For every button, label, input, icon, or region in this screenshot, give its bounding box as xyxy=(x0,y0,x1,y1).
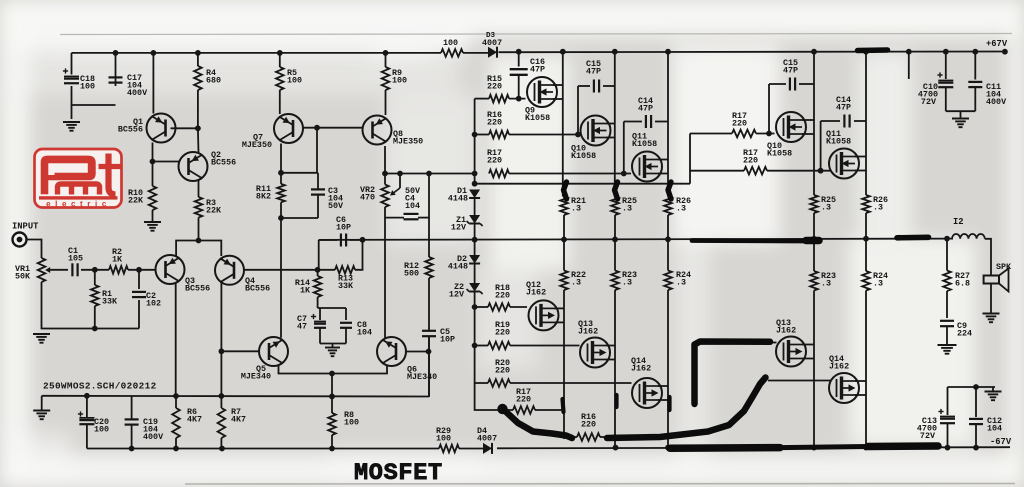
svg-text:400V: 400V xyxy=(143,432,164,442)
svg-text:BC556: BC556 xyxy=(245,283,270,293)
svg-text:.3: .3 xyxy=(622,203,632,213)
ground (C7/C8) xyxy=(332,344,334,348)
svg-text:4K7: 4K7 xyxy=(231,414,246,424)
capacitor C13 4700/72V xyxy=(947,387,949,415)
svg-text:MJE350: MJE350 xyxy=(242,140,272,150)
resistor R1 33K xyxy=(94,270,96,285)
svg-text:MJE340: MJE340 xyxy=(241,372,271,382)
svg-text:K1058: K1058 xyxy=(571,151,596,161)
node Q2 base tap xyxy=(150,159,156,165)
mosfet Q11 K1058 (bank2) xyxy=(829,149,859,179)
capacitor C14 47P (bank2) xyxy=(821,120,840,122)
wire bar right end up xyxy=(428,337,430,397)
diode D4 4007 xyxy=(483,443,492,454)
marker tick Q12 lower xyxy=(563,399,564,412)
wire Q13a stubs xyxy=(606,345,615,347)
marker tick Q11a source xyxy=(668,182,671,199)
wire VR1 bottom xyxy=(42,282,140,329)
svg-text:47P: 47P xyxy=(530,64,545,74)
svg-text:.3: .3 xyxy=(622,277,632,287)
mosfet Q10 K1058 (bank2) xyxy=(776,112,806,142)
mosfet Q13 J162 (bank1) xyxy=(580,338,610,368)
wire Q11a stubs xyxy=(658,159,668,161)
node bottom rail junctions xyxy=(129,446,135,452)
logo PT electric xyxy=(35,149,122,208)
svg-text:104: 104 xyxy=(987,423,1002,433)
svg-text:33K: 33K xyxy=(102,296,118,306)
mosfet Q14 J162 (bank1) xyxy=(632,378,662,408)
wire Q10b stubs xyxy=(802,119,814,121)
capacitor C8 104 xyxy=(345,308,347,320)
wire D1-Z1 xyxy=(474,198,476,215)
svg-text:220: 220 xyxy=(516,394,531,404)
wire C10/C11 bottom bar xyxy=(946,110,976,112)
svg-text:100: 100 xyxy=(94,424,109,434)
transistor Q4 BC556 xyxy=(215,256,244,285)
wire Q11a drain column xyxy=(667,53,669,197)
capacitor C2 102 xyxy=(138,270,140,289)
svg-text:12V: 12V xyxy=(449,290,465,300)
svg-text:680: 680 xyxy=(206,75,221,85)
wire Q10a drain column xyxy=(614,53,616,197)
marker tick Q13a lower xyxy=(614,395,618,407)
svg-text:100: 100 xyxy=(344,417,359,427)
wire R4 column xyxy=(197,53,199,66)
svg-text:10P: 10P xyxy=(440,334,455,344)
svg-text:220: 220 xyxy=(487,81,502,91)
resistor R21 .3 xyxy=(560,197,568,216)
svg-text:BC556: BC556 xyxy=(185,283,210,293)
wire rail stub xyxy=(908,52,910,79)
marker stroke output rail xyxy=(692,238,806,243)
svg-text:22K: 22K xyxy=(206,205,222,215)
svg-text:12V: 12V xyxy=(451,223,467,233)
capacitor C11 104/400V xyxy=(974,52,976,80)
resistor R12 500 xyxy=(428,174,430,258)
wire R2 to Q3 base xyxy=(128,269,156,271)
mosfet Q14 J162 (bank2) xyxy=(829,373,859,403)
node R7 top xyxy=(219,393,225,399)
svg-text:22K: 22K xyxy=(128,195,144,205)
node output rail junctions xyxy=(360,237,366,243)
svg-text:4148: 4148 xyxy=(448,194,468,204)
node base line / C3 xyxy=(314,125,320,131)
wire Q1 emitter to rail xyxy=(152,53,154,114)
svg-text:.3: .3 xyxy=(873,202,883,212)
wire diff pair tail bar xyxy=(176,241,221,258)
wire Q14b stubs xyxy=(855,380,866,382)
svg-text:250WMOS2.SCH/020212: 250WMOS2.SCH/020212 xyxy=(43,381,157,392)
svg-text:500: 500 xyxy=(404,268,419,278)
svg-text:BC556: BC556 xyxy=(118,125,143,135)
wire C5 bottom to Q6 base xyxy=(428,337,430,398)
node VR2 wiper bar xyxy=(397,171,403,177)
node C15b corner xyxy=(766,131,772,137)
wire C18 branch xyxy=(71,53,73,75)
capacitor C14 47P (bank1) xyxy=(624,121,642,123)
node Q6 base junction xyxy=(426,349,432,355)
node R16 column xyxy=(472,132,478,138)
resistor R9 100 xyxy=(385,53,387,67)
wire Q9 drain column xyxy=(562,53,564,197)
wire gate-resistor column xyxy=(474,99,476,184)
svg-text:47P: 47P xyxy=(586,66,601,76)
transistor Q3 BC556 xyxy=(156,255,185,284)
svg-text:J162: J162 xyxy=(578,326,598,336)
node R2/C2 junction xyxy=(136,267,142,273)
mosfet Q12 J162 xyxy=(529,300,559,330)
node tail junction xyxy=(196,238,202,244)
resistor R17 220 (gate Q10b) xyxy=(732,130,756,138)
node R8 crossing xyxy=(329,394,335,400)
resistor R4 680 xyxy=(194,66,202,90)
wire Z1 to rail xyxy=(474,224,476,256)
transistor Q7 MJE350 xyxy=(274,114,303,143)
mosfet Q9 K1058 xyxy=(527,77,557,107)
resistor R25 .3 (bank1) xyxy=(611,197,619,216)
capacitor C17 xyxy=(109,76,123,78)
wire Q14a column lower xyxy=(667,239,669,270)
svg-text:72V: 72V xyxy=(920,431,936,441)
resistor R3 22K xyxy=(195,197,203,218)
wire Q2 emitter to R3 xyxy=(198,181,200,198)
mosfet Q11 K1058 (bank1) xyxy=(632,152,662,182)
node top rail junctions xyxy=(113,50,119,56)
wire C7/C8 bottom bar xyxy=(320,343,346,345)
wire diode column lower xyxy=(475,292,513,411)
transistor Q5 MJE340 xyxy=(259,337,288,366)
svg-text:220: 220 xyxy=(487,155,502,165)
svg-text:47P: 47P xyxy=(638,103,653,113)
wire output rail left end down xyxy=(318,240,320,270)
svg-text:K1058: K1058 xyxy=(767,148,792,158)
ground (C13 bar) xyxy=(992,387,994,391)
wire bank2 gate feed column xyxy=(689,134,691,184)
connector input jack xyxy=(13,233,27,247)
wire -67V bottom rail xyxy=(87,448,439,450)
capacitor C5 10P xyxy=(422,330,436,332)
wire Q11b stubs xyxy=(855,156,866,158)
svg-text:.3: .3 xyxy=(821,202,831,212)
resistor R20 220 xyxy=(488,379,510,387)
wire Q13b column lower xyxy=(813,239,815,271)
svg-text:220: 220 xyxy=(495,365,510,375)
svg-text:33K: 33K xyxy=(338,281,354,291)
wire tail feed bar xyxy=(42,395,429,398)
resistor R11 8K2 xyxy=(277,184,285,202)
wire VR2 top bar xyxy=(385,173,475,175)
node C16/R15 xyxy=(516,96,522,102)
svg-text:K1058: K1058 xyxy=(632,139,657,149)
transistor Q1 BC556 xyxy=(147,114,176,143)
ground (C9) xyxy=(938,344,957,346)
wire Q5 collector column xyxy=(280,218,282,338)
potentiometer VR2 470 xyxy=(381,185,389,208)
diode D2 4148 xyxy=(469,255,480,264)
svg-text:220: 220 xyxy=(743,155,758,165)
node R17 column xyxy=(472,171,478,177)
capacitor C9 224 xyxy=(940,320,954,322)
svg-text:.3: .3 xyxy=(676,203,686,213)
capacitor C18 xyxy=(64,75,79,77)
resistor R17 220 (bottom) xyxy=(513,406,535,414)
node VR2 top xyxy=(382,171,388,177)
resistor R14 1K xyxy=(317,270,319,276)
resistor R26 .3 (bank2) xyxy=(862,195,870,213)
marker tick Q10a source xyxy=(615,182,618,199)
capacitor C19 104 xyxy=(131,396,133,419)
node C20 top xyxy=(84,393,90,399)
marker tick Q9 source xyxy=(564,182,567,199)
wire R11/C3 top bar xyxy=(281,172,318,174)
svg-text:J162: J162 xyxy=(526,287,546,297)
resistor R17 220 (gate Q11b) xyxy=(744,167,767,175)
resistor R15 220 xyxy=(489,95,509,103)
svg-text:224: 224 xyxy=(957,328,972,338)
wire C13/C12 top bar xyxy=(948,386,996,388)
svg-text:104: 104 xyxy=(405,201,420,211)
svg-text:J162: J162 xyxy=(631,363,651,373)
svg-text:220: 220 xyxy=(732,118,747,128)
capacitor C6 10P xyxy=(319,239,338,241)
svg-text:1K: 1K xyxy=(300,286,311,296)
svg-text:6.8: 6.8 xyxy=(955,278,970,288)
ground (R10) xyxy=(144,221,161,223)
marker stroke gate correction 1 xyxy=(497,404,507,414)
transistor Q2 BC556 xyxy=(179,152,208,181)
marker stroke bank2 Q13 gate xyxy=(695,342,771,405)
node C14b corner xyxy=(818,168,824,174)
wire Q6 base line xyxy=(406,351,429,353)
node R1 bottom xyxy=(92,326,98,332)
wire Q3 collector xyxy=(175,283,177,396)
ground (C18/C17) xyxy=(63,121,80,123)
svg-text:.3: .3 xyxy=(821,278,831,288)
svg-text:+67V: +67V xyxy=(986,39,1008,49)
ground (SPK) xyxy=(983,313,1000,315)
wire Q13b stubs xyxy=(802,344,814,346)
svg-text:D3: D3 xyxy=(486,32,496,40)
svg-text:MJE350: MJE350 xyxy=(393,136,423,146)
wire +67V top rail xyxy=(72,52,442,54)
wire Q10b drain column xyxy=(813,52,815,195)
inductor I2 xyxy=(952,234,985,239)
node R16b right xyxy=(612,434,618,440)
wire VR1 wiper to C1 xyxy=(51,269,69,271)
node R14 top xyxy=(315,267,321,273)
capacitor C12 104 xyxy=(975,387,977,417)
node C12 top xyxy=(973,384,979,390)
marker stroke gate correction 2 xyxy=(607,378,766,439)
svg-text:100: 100 xyxy=(436,433,451,443)
ground (tail bar) xyxy=(33,410,50,412)
svg-text:K1058: K1058 xyxy=(826,136,851,146)
wire Q6 collector column xyxy=(384,218,386,338)
ground (C10/C11) xyxy=(960,111,962,118)
resistor R23 .3 (bank1) xyxy=(611,271,619,291)
mosfet Q13 J162 (bank2) xyxy=(776,337,806,367)
svg-text:.3: .3 xyxy=(571,203,581,213)
node R8 top xyxy=(329,371,335,377)
resistor R22 .3 xyxy=(560,271,568,291)
wire Q9 stubs xyxy=(553,84,563,86)
svg-text:105: 105 xyxy=(68,253,83,263)
svg-text:400V: 400V xyxy=(986,97,1007,107)
svg-text:8K2: 8K2 xyxy=(256,192,271,202)
svg-text:.3: .3 xyxy=(676,277,686,287)
svg-text:J162: J162 xyxy=(829,361,849,371)
svg-text:104: 104 xyxy=(357,327,372,337)
resistor R5 100 xyxy=(279,53,281,67)
svg-text:4148: 4148 xyxy=(448,262,468,272)
wire Q4 base line xyxy=(244,269,319,271)
transistor Q6 MJE340 xyxy=(377,337,406,366)
resistor 100 (top rail) xyxy=(441,49,463,57)
node R18 tap xyxy=(472,304,478,310)
svg-text:220: 220 xyxy=(495,327,510,337)
svg-text:10P: 10P xyxy=(336,222,351,232)
svg-text:.3: .3 xyxy=(571,277,581,287)
svg-text:1K: 1K xyxy=(112,254,123,264)
svg-text:I2: I2 xyxy=(953,217,964,227)
zener Z1 12V xyxy=(469,215,480,224)
wire source line bank1 xyxy=(475,183,690,185)
node Q5 collector column top xyxy=(278,215,284,221)
wire VR2 bottom / C4 bar xyxy=(385,207,404,218)
wire R11/C3 bottom bar xyxy=(281,217,318,219)
capacitor C10 4700/72V xyxy=(945,52,947,79)
resistor R8 100 xyxy=(331,374,333,414)
svg-text:100: 100 xyxy=(287,75,302,85)
marker stroke bottom rail xyxy=(670,444,780,452)
svg-text:BC556: BC556 xyxy=(211,157,236,167)
svg-text:4K7: 4K7 xyxy=(187,414,202,424)
zener Z2 12V xyxy=(469,283,480,292)
svg-text:100: 100 xyxy=(80,81,95,91)
transistor Q8 MJE350 xyxy=(363,116,392,145)
wire bar to ground xyxy=(41,396,43,410)
wire Q11b drain column xyxy=(865,52,867,195)
wire Q14a stubs xyxy=(658,385,668,387)
speaker SPK xyxy=(984,276,999,284)
wire Q8 emitter drop xyxy=(384,146,386,174)
capacitor C15 47P (bank2) xyxy=(769,83,786,85)
wire output rail xyxy=(319,239,953,240)
wire C1 to R2 xyxy=(81,269,109,271)
capacitor C3 104 xyxy=(317,173,319,189)
wire Q5 base line xyxy=(221,350,259,352)
svg-text:-67V: -67V xyxy=(990,437,1012,447)
svg-text:SPK: SPK xyxy=(996,262,1012,272)
diode D3 4007 xyxy=(488,47,497,58)
svg-text:electric: electric xyxy=(46,200,111,209)
resistor R16 220 (bottom) xyxy=(564,436,577,438)
wire Q1 base xyxy=(171,127,198,129)
node R11 top xyxy=(278,170,284,176)
resistor R18 220 xyxy=(488,303,510,311)
wire D2-Z2 xyxy=(474,264,476,284)
wire Q14b gate line xyxy=(768,380,831,382)
resistor R24 .3 (bank2) xyxy=(862,271,870,291)
resistor R29 100 xyxy=(439,445,459,453)
node Q1 base/R4 xyxy=(195,125,201,131)
wire input to VR1 xyxy=(27,240,42,259)
resistor R17 220 (gate Q11a) xyxy=(489,170,509,178)
resistor R10 22K xyxy=(149,186,157,210)
wire emitter bar Q5-Q6 xyxy=(279,365,388,374)
wire Q7 collector xyxy=(280,144,282,173)
resistor R2 1K xyxy=(109,266,128,274)
capacitor C1 105 xyxy=(71,263,73,276)
wire Q13b gate line xyxy=(770,342,777,344)
svg-text:K1058: K1058 xyxy=(525,113,550,123)
node C1/R1 junction xyxy=(92,267,98,273)
wire Q12 column lower xyxy=(563,240,565,271)
svg-text:72V: 72V xyxy=(921,97,937,107)
svg-text:470: 470 xyxy=(360,192,375,202)
capacitor C4 104 xyxy=(404,213,419,215)
svg-text:220: 220 xyxy=(487,117,502,127)
resistor R7 4K7 xyxy=(220,396,222,408)
svg-text:100: 100 xyxy=(443,38,458,48)
svg-text:MJE340: MJE340 xyxy=(407,372,437,382)
resistor R27 6.8 xyxy=(946,239,948,271)
svg-text:100: 100 xyxy=(392,75,407,85)
ground (input) xyxy=(33,333,50,335)
wire SPK to ground xyxy=(990,284,992,314)
wire Q7-Q8 base line xyxy=(303,127,362,129)
wire Q12 stubs xyxy=(554,307,564,309)
diode D1 4148 xyxy=(469,190,480,199)
resistor R23 .3 (bank2) xyxy=(810,271,818,291)
resistor R16 220 (gate Q10a) xyxy=(489,131,509,139)
svg-text:102: 102 xyxy=(146,298,161,308)
wire C7/C8 top bar xyxy=(318,307,346,309)
resistor R26 .3 (bank1) xyxy=(664,197,672,216)
svg-text:400V: 400V xyxy=(127,88,148,98)
svg-text:47: 47 xyxy=(297,322,307,332)
svg-text:220: 220 xyxy=(495,290,510,300)
wire Q4 collector xyxy=(220,283,222,396)
node R6 top xyxy=(173,393,179,399)
resistor R6 4K7 xyxy=(175,396,177,408)
resistor R25 .3 (bank2) xyxy=(810,195,818,213)
wire Q1 emitter lower xyxy=(152,143,154,187)
node R19 tap xyxy=(472,343,478,349)
wire Q14b column lower xyxy=(865,239,867,271)
marker blob top rail xyxy=(858,47,888,53)
svg-text:4007: 4007 xyxy=(477,433,497,443)
potentiometer VR1 50K xyxy=(38,258,46,282)
svg-text:.3: .3 xyxy=(873,278,883,288)
wire Q2 base xyxy=(153,161,180,163)
node source line left xyxy=(472,181,478,187)
resistor R13 33K xyxy=(319,269,335,271)
svg-text:50V: 50V xyxy=(328,201,344,211)
svg-text:50K: 50K xyxy=(15,271,31,281)
resistor R24 .3 (bank1) xyxy=(664,271,672,291)
capacitor C20 100 xyxy=(86,396,88,418)
svg-text:J162: J162 xyxy=(776,325,796,335)
node Q4 collector / Q5 base xyxy=(219,348,225,354)
wire Q10a stubs xyxy=(606,123,615,125)
wire Q13a column lower xyxy=(614,239,616,270)
capacitor C16 47P xyxy=(518,53,520,67)
svg-text:MOSFET: MOSFET xyxy=(354,460,443,487)
marker stroke output rail right xyxy=(897,235,929,241)
capacitor C7 47 xyxy=(319,308,321,320)
wire C3 drop xyxy=(316,128,318,173)
